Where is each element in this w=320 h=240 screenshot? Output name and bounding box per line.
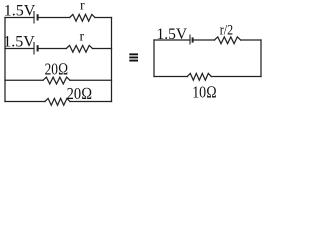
wire right circuit top-middle segment	[194, 39, 215, 41]
svg-text:20Ω: 20Ω	[67, 84, 93, 103]
svg-text:1.5V: 1.5V	[4, 2, 36, 19]
resistor 10ohm (right circuit bottom)	[187, 73, 211, 80]
wire right circuit bottom-left segment	[154, 76, 187, 78]
wire right circuit left rail	[153, 40, 155, 77]
wire branch 1 right segment	[95, 17, 112, 19]
wire branch 1 left segment	[5, 17, 34, 19]
resistor r (branch 2)	[66, 45, 92, 52]
wire branch 4 right segment	[70, 101, 112, 103]
wire right circuit top-left segment	[154, 39, 190, 41]
wire branch 1 middle segment	[39, 17, 70, 19]
battery B3 short plate	[192, 37, 194, 42]
wire right rail of left circuit	[111, 18, 113, 102]
equivalence symbol	[129, 53, 138, 61]
battery B1 short plate	[37, 14, 39, 20]
wire branch 2 right segment	[93, 48, 112, 50]
battery B2 short plate	[37, 45, 39, 51]
battery B3 long plate	[189, 35, 191, 45]
wire left rail of left circuit	[4, 18, 6, 102]
svg-text:1.5V: 1.5V	[3, 33, 35, 50]
svg-text:20Ω: 20Ω	[45, 59, 69, 78]
wire right circuit right rail	[260, 40, 262, 77]
resistor 20ohm (branch 4)	[45, 98, 70, 105]
wire branch 2 left segment	[5, 48, 34, 50]
resistor r (branch 1)	[70, 14, 95, 21]
resistor r/2 (right circuit top)	[215, 37, 241, 44]
battery B2 long plate	[33, 42, 35, 55]
wire right circuit top-right segment	[241, 39, 261, 41]
svg-text:r: r	[80, 30, 85, 45]
battery B1 long plate	[33, 11, 35, 24]
wire right circuit bottom-right segment	[211, 76, 261, 78]
svg-text:1.5V: 1.5V	[157, 26, 188, 43]
svg-text:r: r	[80, 0, 85, 14]
wire branch 3 right segment	[70, 79, 112, 81]
resistor 20ohm (branch 3)	[43, 77, 70, 84]
svg-text:r/2: r/2	[220, 23, 233, 39]
wire branch 2 middle segment	[39, 48, 67, 50]
wire branch 3 left segment	[5, 79, 43, 81]
wire branch 4 left segment	[5, 101, 45, 103]
svg-text:10Ω: 10Ω	[192, 82, 217, 101]
